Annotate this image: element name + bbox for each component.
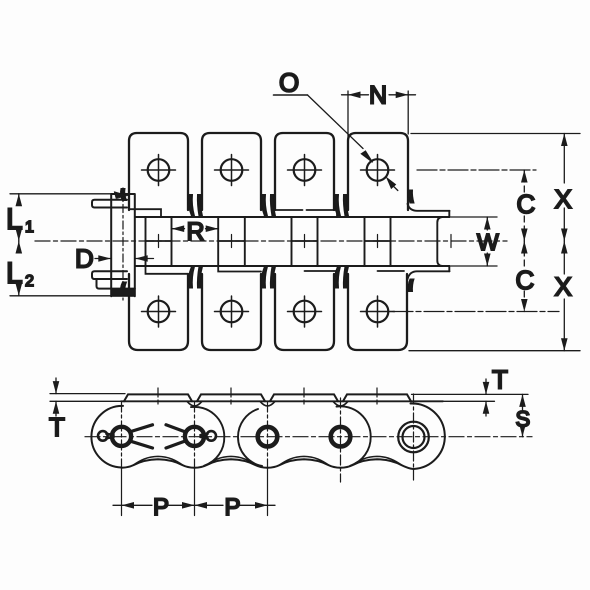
svg-text:P: P xyxy=(153,494,169,521)
roller 2 edges (top view) xyxy=(172,217,219,266)
hole centerline tick H3 xyxy=(304,235,306,248)
dimension S xyxy=(522,394,524,410)
right end lobe (side view plate) xyxy=(411,403,445,469)
chain right end bar edges xyxy=(448,211,450,271)
svg-text:S: S xyxy=(516,407,531,432)
bend relief blobs at pin 3 top xyxy=(261,195,275,217)
L1 top extension line with end arrow xyxy=(10,193,117,195)
pin centerline 2 (side view) xyxy=(194,402,196,468)
under-tab plate edge tab B4 xyxy=(378,270,405,272)
left end lower second bar xyxy=(97,279,135,289)
hole A4 xyxy=(361,155,395,186)
attachment tab A2 (top) xyxy=(202,133,261,210)
svg-text:T: T xyxy=(49,412,65,442)
dimension N extension lines xyxy=(348,91,408,139)
hole B3 xyxy=(288,296,322,327)
X bottom extension line xyxy=(409,350,580,352)
dimension P (first pitch) xyxy=(113,504,152,506)
inner plate waist line gap 3-4 xyxy=(279,456,329,465)
roller pin 3 xyxy=(258,427,278,447)
hole A3 xyxy=(288,155,322,186)
hole B1 xyxy=(142,296,176,327)
attachment tab A1 (top) xyxy=(129,133,188,210)
under-tab plate edge tab B2 xyxy=(218,266,261,272)
strip centerline ticks xyxy=(158,388,377,404)
hole centerline tick H4 xyxy=(377,235,379,248)
bend relief blob left of tab A1 xyxy=(121,189,127,201)
hole A1 xyxy=(142,155,176,186)
pin 2 right lobe arc xyxy=(191,407,224,466)
under-tab plate edge tab B3 xyxy=(305,266,339,271)
bend relief blob right of tab A4 xyxy=(408,190,414,203)
pin bottom end cap (dark) xyxy=(111,289,135,297)
left end outer plate top bar xyxy=(92,200,127,208)
dimension C (upper) xyxy=(523,170,525,192)
outer plate bottom edge right of tab B4 xyxy=(408,271,450,279)
attachment strip 3 (side view) xyxy=(270,394,338,401)
W top extension line xyxy=(451,216,498,218)
roller 5 edges (top view) xyxy=(391,217,443,266)
hole A2 xyxy=(215,155,249,186)
svg-text:C: C xyxy=(517,189,536,219)
pin shank between rollers 3-4 xyxy=(292,240,318,242)
dimension L1 xyxy=(18,194,20,204)
svg-text:W: W xyxy=(477,229,499,255)
W bottom extension line xyxy=(451,265,498,267)
bend relief blobs at pin 2 top xyxy=(188,195,202,217)
left end outer plate bottom bar xyxy=(92,271,127,279)
hole centerline tick H5 xyxy=(450,235,452,248)
bushing end pin 5 xyxy=(398,422,429,453)
dimension X (upper) xyxy=(563,134,565,184)
side view centerline xyxy=(85,436,532,438)
attachment tab B4 (bottom) xyxy=(348,274,407,350)
C top extension line (hole A4 centerline) xyxy=(417,169,536,171)
outer plate top edge right of tab A4 xyxy=(408,204,450,211)
leader from O to hole A4 xyxy=(308,95,364,149)
pin 4 right lobe arc xyxy=(337,406,371,466)
bend relief blob left of tab B1 xyxy=(121,282,127,294)
T right extension lines xyxy=(412,394,529,401)
hole B4 xyxy=(361,296,395,327)
cotter eye pin 2 xyxy=(206,431,216,441)
L2 bottom extension line xyxy=(10,295,131,297)
attachment strip 1 (side view) xyxy=(124,394,192,401)
pin shank between rollers 4-5 xyxy=(365,240,391,242)
roller 1 edges (top view) xyxy=(145,217,147,266)
cotter prongs pin 1 xyxy=(131,425,153,448)
svg-text:L: L xyxy=(6,257,23,290)
inner plate waist line gap 1-2 xyxy=(133,456,183,465)
svg-text:X: X xyxy=(555,272,572,302)
bend relief blob right of tab B4 xyxy=(408,279,414,292)
svg-text:R: R xyxy=(187,218,205,246)
pin centerline 5 (side view) xyxy=(413,394,415,482)
dimension C (lower) xyxy=(523,241,525,266)
pin shank between rollers 2-3 xyxy=(218,240,245,242)
inner plate waist line gap 2-3 xyxy=(206,456,256,465)
bend relief blobs at pin 4 top xyxy=(334,195,348,217)
dimension T (left) xyxy=(55,378,57,394)
notch at pin 2 xyxy=(187,401,202,406)
svg-text:P: P xyxy=(225,494,241,521)
pin centerline 1 (side view) xyxy=(121,402,123,468)
plate bottom outline (side view) xyxy=(122,459,414,469)
chain band bottom edge xyxy=(135,265,449,267)
attachment strip 2 (side view) xyxy=(197,394,265,401)
attachment tab A4 (top) xyxy=(348,133,408,210)
plate top edge (side view) xyxy=(121,400,443,402)
roller ring pin 1 with cotter xyxy=(112,427,131,446)
svg-text:L: L xyxy=(6,203,23,236)
roller pin 4 xyxy=(331,427,351,447)
left end lobe (side view plate) xyxy=(91,406,123,468)
svg-text:O: O xyxy=(279,68,299,98)
centerline horizontal (top view) xyxy=(35,240,507,242)
dimension P (second pitch) xyxy=(195,504,224,506)
svg-text:1: 1 xyxy=(25,219,34,236)
hole centerline tick H2 xyxy=(231,235,233,248)
attachment strip 4 (side view) xyxy=(343,394,411,401)
pin centerline 3 (side view) xyxy=(267,402,269,468)
roller ring pin 2 with cotter xyxy=(185,427,204,446)
attachment tab B3 (bottom) xyxy=(275,274,334,350)
attachment tab A3 (top) xyxy=(275,133,334,210)
under-tab plate edge tab B1 xyxy=(146,266,189,274)
X top extension line xyxy=(411,133,580,135)
extended pin centerline xyxy=(122,188,124,300)
C bottom extension line (hole B4 centerline) xyxy=(393,311,559,313)
svg-text:T: T xyxy=(492,365,508,395)
pin shank between rollers 1-2 xyxy=(146,240,172,242)
bend relief blobs at pin 2 bottom xyxy=(188,267,202,289)
svg-text:C: C xyxy=(516,265,535,295)
chain band top edge xyxy=(135,216,449,218)
under-tab plate edge tab A3 xyxy=(275,210,337,217)
hole B2 xyxy=(215,296,249,327)
bend relief blobs at pin 3 bottom xyxy=(261,267,275,289)
svg-text:D: D xyxy=(75,244,94,274)
svg-text:X: X xyxy=(555,184,572,214)
attachment tab B2 (bottom) xyxy=(202,274,261,350)
dimension N xyxy=(342,94,369,96)
pin centerline 4 (side view) xyxy=(340,398,342,482)
dimension W xyxy=(486,217,488,230)
dimension X (lower) xyxy=(563,241,565,274)
cotter eye pin 1 xyxy=(98,431,108,441)
dimension L2 xyxy=(18,241,20,252)
pin 3 left lobe arc xyxy=(238,409,262,466)
roller 3 edges (top view) xyxy=(245,217,292,266)
under-tab plate edge tab A1 xyxy=(129,209,161,217)
notch at pin 3 xyxy=(260,401,275,406)
attachment tab B1 (bottom) xyxy=(129,274,188,350)
roller 4 edges (top view) xyxy=(318,217,365,266)
bend relief blobs at pin 4 bottom xyxy=(334,267,348,289)
notch at pin 4 xyxy=(333,401,348,406)
dimension T (right) xyxy=(485,379,487,394)
cotter prongs pin 2 xyxy=(166,425,185,448)
svg-text:N: N xyxy=(369,82,387,110)
extended pin (left end) body xyxy=(111,194,135,296)
T left extension lines xyxy=(50,394,125,402)
inner plate waist line gap 4-5 xyxy=(352,456,402,465)
hole centerline tick H1 xyxy=(158,235,160,248)
svg-text:2: 2 xyxy=(25,273,34,290)
